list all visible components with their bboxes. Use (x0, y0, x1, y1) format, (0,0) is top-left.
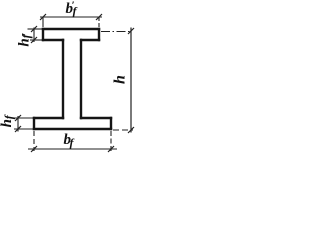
label hf (rotated) (0, 114, 16, 127)
svg-text:h: h (0, 119, 15, 127)
dimension bf line (28, 148, 117, 150)
label h (rotated) (112, 75, 129, 84)
tick h top (128, 28, 134, 34)
dimension h'f extension bottom (30, 39, 42, 41)
dimension bf extension left (dashed) (33, 131, 35, 151)
top flange outline (43, 29, 99, 40)
dimension hf line (17, 116, 19, 132)
dimension b'f extension line right (98, 17, 100, 27)
svg-text:h: h (112, 75, 129, 84)
tick b'f right (96, 14, 102, 20)
web (63, 40, 81, 118)
label h'f (rotated) (16, 33, 33, 47)
tick b'f left (40, 14, 46, 20)
dimension h top extension (dash-dot) (101, 31, 132, 33)
dimension b'f extension line left (42, 17, 44, 27)
svg-text:h: h (16, 38, 32, 46)
tick h'f top (31, 26, 37, 32)
bottom flange outline (34, 118, 111, 129)
dimension hf extension bottom (14, 128, 33, 130)
tick bf right (108, 146, 114, 152)
tick hf bottom (15, 126, 21, 132)
dimension h line (130, 28, 132, 133)
tick bf left (31, 146, 37, 152)
tick h'f bottom (31, 37, 37, 43)
dimension b'f line (40, 16, 102, 18)
dimension h bottom extension (dashed) (113, 129, 133, 131)
dimension hf extension top (13, 117, 33, 119)
dimension h'f extension top (28, 28, 43, 30)
tick hf top (15, 115, 21, 121)
tick h bottom (128, 127, 134, 133)
dimension h'f line (33, 28, 35, 43)
dimension bf extension right (110, 131, 112, 151)
